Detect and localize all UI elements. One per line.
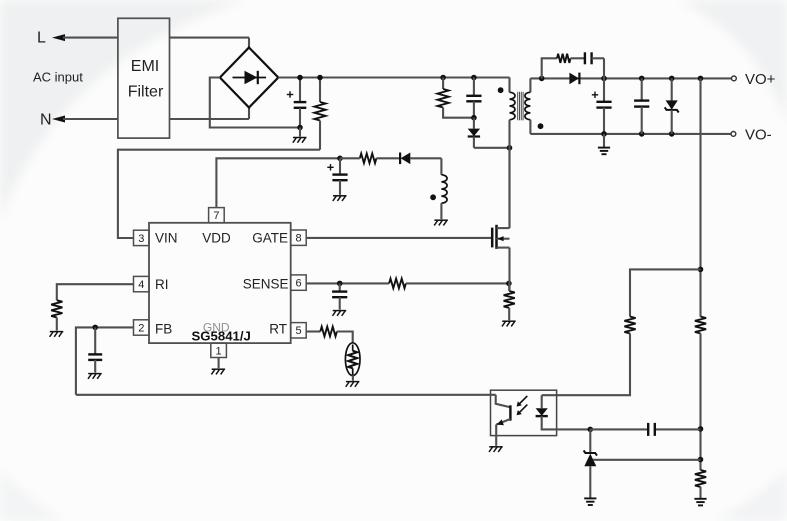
svg-text:SG5841/J: SG5841/J <box>192 329 251 344</box>
svg-text:RT: RT <box>269 322 287 337</box>
svg-text:2: 2 <box>138 322 144 334</box>
svg-text:5: 5 <box>295 325 301 337</box>
svg-text:VIN: VIN <box>155 230 178 245</box>
svg-text:VO+: VO+ <box>745 71 776 88</box>
svg-text:SENSE: SENSE <box>243 277 289 292</box>
svg-text:6: 6 <box>295 278 301 290</box>
svg-text:L: L <box>37 29 46 46</box>
svg-text:VDD: VDD <box>202 230 231 245</box>
svg-text:FB: FB <box>155 322 172 337</box>
svg-text:4: 4 <box>138 279 144 291</box>
svg-text:AC input: AC input <box>33 70 83 85</box>
svg-text:8: 8 <box>295 233 301 245</box>
svg-text:EMI: EMI <box>131 58 159 75</box>
svg-text:VO-: VO- <box>745 126 772 143</box>
svg-text:3: 3 <box>138 233 144 245</box>
svg-text:GATE: GATE <box>252 230 288 245</box>
svg-text:7: 7 <box>213 210 219 222</box>
svg-text:Filter: Filter <box>128 83 164 100</box>
svg-text:RI: RI <box>155 277 169 292</box>
svg-text:1: 1 <box>216 345 222 357</box>
svg-text:N: N <box>40 111 52 128</box>
